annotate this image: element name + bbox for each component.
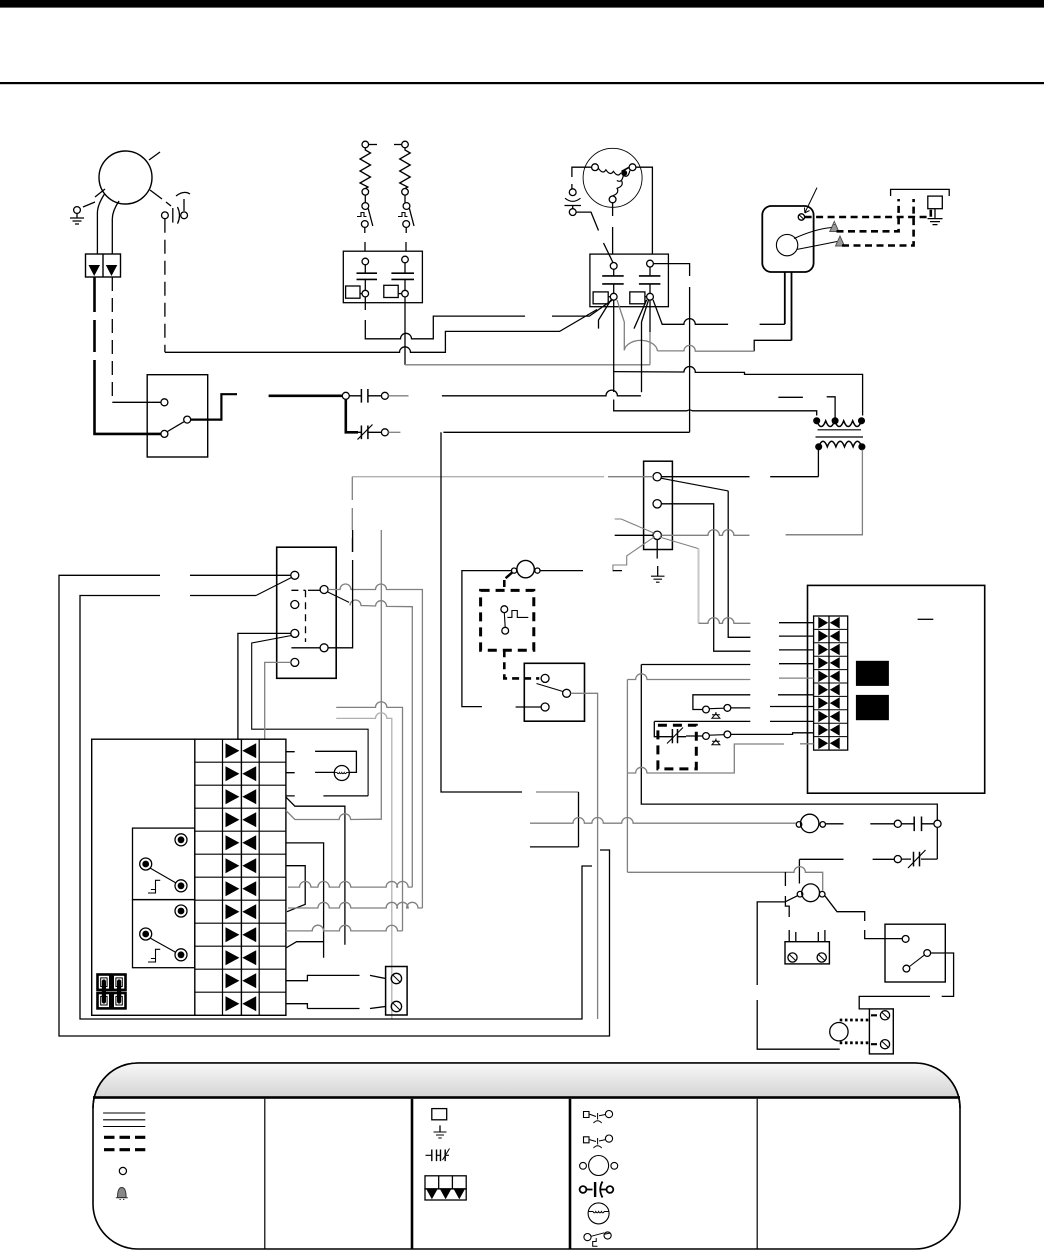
equip ground box: [928, 196, 943, 209]
row2 wire: [286, 771, 334, 773]
aux limit relay box 1: [133, 828, 195, 900]
gray run 2: [350, 600, 412, 887]
wire limit3 left: [516, 706, 542, 708]
col1: bell symbol: [118, 1188, 127, 1198]
strip left column line: [194, 739, 196, 1015]
blade D: [252, 636, 368, 796]
field wire neutral (dashed): [842, 199, 914, 246]
junction box: [762, 206, 813, 272]
limit terminal 3: [541, 703, 549, 711]
wire: terminal2 to vent wire: [653, 300, 728, 325]
winding bottom: [609, 196, 616, 203]
board label line: [918, 618, 934, 620]
relay block 2: [856, 695, 889, 720]
wire NO to bundle: [442, 390, 641, 396]
row7 wire gray: [288, 881, 412, 887]
vent motor circle: [802, 884, 820, 902]
wire B gray out: [328, 584, 422, 908]
wire into D: [238, 633, 291, 740]
gray stub: [388, 395, 408, 397]
draft switch step: [507, 611, 528, 618]
relay SSR box: [147, 375, 208, 457]
terminal F: [291, 658, 299, 666]
TB3 gray diagonals: [615, 519, 699, 549]
wire into A: [190, 574, 291, 576]
draft switch terminal: [501, 606, 508, 613]
terminal C: [291, 601, 299, 609]
draft blade: [503, 613, 506, 628]
speed tap dot: [621, 170, 627, 176]
ground: [74, 207, 81, 214]
wire N into relay: [112, 401, 161, 403]
column dividers: [264, 1099, 266, 1249]
terminal: [402, 189, 409, 196]
grommet circle: [776, 234, 797, 255]
wire: run cap to blower (gray): [165, 310, 597, 353]
terminal block TB: [644, 461, 673, 549]
legend header band: [93, 1063, 960, 1108]
left lead loop: [757, 896, 840, 1049]
relay terminal 3: [161, 430, 168, 437]
capacitor box CAP: [590, 254, 669, 307]
terminal B: [320, 586, 328, 594]
resistor HTR1: [360, 148, 371, 189]
pressure switch box (dashed): [658, 725, 696, 769]
wire y792 continue: [536, 791, 579, 793]
row5 wire: [286, 843, 324, 958]
NO contact HUM: [349, 395, 381, 397]
TB terminal 2: [653, 500, 661, 508]
wire row5 gray into board: [627, 674, 813, 680]
jbox leads down: [784, 272, 786, 324]
blower run capacitor: [569, 189, 576, 196]
vent motor feed right gray: [627, 867, 822, 891]
dashed coil link: [291, 590, 305, 642]
inducer motor IDM: [99, 151, 152, 204]
terminal E: [320, 644, 328, 652]
pressure contact: [672, 729, 677, 743]
pointer arrow: [805, 188, 818, 213]
dashed drop below: [504, 650, 539, 678]
TB3 cross wire black: [615, 534, 653, 536]
rollout 1 wire loop: [693, 695, 814, 710]
screw terminal block TBL: [386, 967, 408, 1016]
blower motor BLWM: [583, 148, 642, 207]
blade B: [327, 592, 349, 603]
strip divider columns: [223, 739, 260, 1015]
col3: plug square: [432, 1109, 447, 1120]
TB2 wire: [661, 504, 813, 651]
wire: cap box1 to blower box (hot): [365, 297, 612, 339]
terminals: [175, 905, 187, 917]
long gray vertical: [380, 530, 382, 819]
motor leads to plug: [97, 194, 104, 254]
row8 wire gray: [288, 902, 422, 908]
relay out wire: [191, 394, 237, 419]
wire left winding to cap: [572, 167, 592, 189]
header rule: [0, 82, 1044, 84]
valve blade: [506, 572, 513, 578]
row12 wire to screw block: [286, 1004, 386, 1009]
wire neutral down (dashed): [111, 277, 113, 402]
relay blade: [168, 422, 184, 432]
wire arch gray: [624, 340, 657, 351]
row4 wire black jog: [286, 797, 345, 945]
bundle fan from cap terminal 1: [599, 300, 612, 329]
wire right winding down: [636, 167, 652, 254]
legend box: [93, 1063, 960, 1249]
fan from cap terminal 2: [634, 300, 650, 332]
row3 wire: [286, 795, 368, 797]
col1: terminal circle: [119, 1167, 126, 1174]
igniter symbol: [588, 1203, 609, 1224]
motor right lead: [826, 823, 895, 825]
blade A: [256, 578, 292, 596]
col3: ground: [439, 1125, 441, 1132]
coil square: [346, 286, 360, 298]
field ground wire (dashed): [805, 209, 931, 217]
transformer T secondary: [816, 441, 865, 449]
terminal: [610, 263, 617, 270]
terminal: [362, 189, 369, 196]
wire cap to switch: [576, 212, 598, 230]
sequencer box SEQ: [343, 251, 422, 303]
wire into F gray: [265, 662, 291, 740]
humidifier motor: [801, 814, 819, 832]
long vertical black left: [441, 432, 522, 792]
winding coils: [598, 168, 621, 175]
24v wire to terminal: [661, 476, 818, 478]
secondary right wire: [786, 450, 863, 535]
vent motor feed left: [798, 859, 800, 883]
igniter dotted leads: [840, 1019, 871, 1022]
junction block outer box: [92, 739, 286, 1015]
TB terminal 1: [653, 473, 661, 481]
field splice arrow 2: [836, 236, 845, 246]
coil square 2: [630, 292, 645, 304]
gray drop at x352: [351, 477, 353, 552]
heater HTR2 terminal: [402, 141, 409, 148]
NC contact: [799, 858, 894, 860]
HSI indicator circle: [334, 766, 349, 781]
band bottom rule: [93, 1096, 960, 1099]
contact terminal 2: [402, 256, 409, 263]
field wire hot (dashed): [837, 199, 899, 231]
wire bottom winding down: [612, 203, 614, 254]
wire: gray run to bundle: [405, 364, 650, 366]
gray wire bottom loop: [627, 744, 813, 773]
stub: [369, 144, 377, 146]
run capacitor lead: [176, 192, 190, 196]
drop to NC row: [530, 792, 579, 847]
header bar: [0, 0, 1044, 8]
wire L1 hot down (thick): [93, 277, 96, 430]
limit switch LS2: [403, 203, 410, 210]
row4 wire gray: [286, 811, 381, 820]
leads from grommet: [794, 228, 832, 239]
wire NC stub gray: [388, 431, 400, 433]
igniter terminal block: [869, 1009, 893, 1054]
switch step symbol: [584, 1234, 591, 1241]
row10 wire: [286, 942, 324, 948]
col3: capacitor symbols: [426, 1154, 450, 1156]
gas valve GV: [517, 560, 534, 577]
wire y477 to TB gray light: [352, 476, 604, 478]
wire L1 into relay: [95, 430, 161, 434]
wire bundle vertical: [614, 300, 817, 415]
coil square: [593, 292, 608, 304]
strip triangles: [226, 743, 257, 1011]
wire: jbox lead2 to y340: [754, 340, 791, 351]
gray runs to lower verticals: [336, 702, 402, 931]
relay HUM/EAC box: [277, 547, 337, 678]
spark transformer block: [785, 942, 829, 964]
blade: [150, 868, 176, 883]
pressure switch solid feed: [654, 720, 813, 722]
wire limit2 gray out: [571, 693, 598, 1019]
TB1 diagonal: [661, 478, 728, 491]
terminal 2: [647, 260, 654, 267]
TB3 ground drop: [656, 540, 658, 559]
transformer T primary: [814, 418, 864, 437]
wire segment right of bump: [760, 323, 785, 325]
wire valve right: [540, 570, 622, 572]
wire row4 into board: [641, 663, 813, 666]
block leads: [785, 872, 789, 942]
terminals: [175, 834, 187, 846]
transformer tap wire: [827, 397, 835, 418]
TB terminal 3: [653, 531, 661, 539]
gray feed into TB1: [608, 476, 653, 478]
relay terminal 1: [161, 399, 168, 406]
limit terminal 1: [541, 674, 549, 682]
strip row lines: [814, 629, 848, 736]
ground symbol: [934, 209, 936, 219]
row9 wire gray: [286, 925, 403, 931]
vent vertical with bumps: [653, 264, 689, 433]
row1 wire to igniter loop: [286, 751, 357, 772]
NC contact EAC: [358, 431, 381, 433]
wire rollout2 out: [731, 733, 814, 735]
control board box: [808, 585, 985, 793]
draft safeguard box (dashed): [481, 590, 534, 650]
winding right: [629, 164, 636, 171]
switch symbol 2: [584, 1137, 590, 1143]
heater HTR1 terminal: [362, 141, 369, 148]
wire: y351 run (gray): [657, 345, 754, 351]
igniter circle: [830, 1022, 848, 1040]
motor symbol: [589, 1156, 609, 1176]
col1: dashed line symbol: [104, 1137, 145, 1149]
connector triangles: [818, 617, 839, 749]
secondary left wire: [817, 450, 819, 477]
step: [148, 949, 160, 962]
bracket: [891, 189, 950, 196]
wire NC to vent vertical: [443, 431, 689, 433]
wire valve left loop: [462, 571, 512, 707]
node circle: [342, 392, 349, 399]
row6 wire: [286, 866, 305, 912]
limit switch box: [524, 663, 584, 721]
wire: terminal2 drop to relay wire: [641, 322, 643, 392]
sail switch box: [885, 924, 945, 982]
plug PL13: [86, 254, 121, 277]
blade: [150, 938, 176, 953]
right lead: [825, 896, 902, 939]
draft terminal 2: [502, 627, 509, 634]
col1: solid line symbol: [103, 1113, 145, 1127]
resistor HTR2: [400, 148, 411, 189]
TB3 gray run right: [661, 530, 862, 536]
main hot wire thick: [269, 394, 343, 397]
stub: [394, 144, 402, 146]
quad plug connector: [98, 975, 126, 1009]
NC branch down: [346, 399, 358, 432]
limit terminal 2: [563, 689, 571, 697]
motor gray lead: [530, 817, 796, 823]
contact plates: [357, 273, 378, 279]
motor lead stub top-right: [149, 152, 160, 160]
row11 wire to screw block: [286, 975, 386, 980]
rollout switch 1: [703, 706, 710, 713]
wire rollout1 out: [731, 707, 814, 708]
dashed drop to draft box: [503, 580, 506, 590]
vertical into E: [328, 530, 353, 648]
coil square 2: [384, 285, 398, 297]
outer cabinet line: [59, 575, 610, 1036]
relay block 1: [856, 661, 889, 686]
wire: bundle to transformer primary right: [614, 366, 863, 415]
bundle gray drop: [617, 300, 624, 350]
ground lead: [83, 202, 95, 207]
motor lead stub left: [95, 189, 105, 197]
limit switch symbol: [584, 1112, 590, 1118]
terminal D: [291, 629, 299, 637]
board edge strip: [814, 616, 848, 750]
strip row lines: [195, 762, 286, 992]
col3: field splice cells: [425, 1176, 466, 1189]
terminal A: [291, 571, 299, 579]
step: [148, 880, 160, 893]
run capacitor: [162, 212, 169, 219]
motor lead stub right: [150, 190, 171, 206]
wire into blade A: [190, 595, 256, 597]
aux limit relay box 2: [133, 900, 195, 968]
limit switch LS1: [362, 203, 369, 210]
winding left: [592, 164, 599, 171]
sail out wire J: [859, 953, 953, 1009]
field splice arrow 1: [830, 222, 839, 232]
rollout switch 2: [686, 735, 703, 737]
ground screw: [798, 214, 804, 220]
capacitor symbol: [580, 1186, 587, 1193]
inner cabinet line: [80, 596, 592, 1020]
NO contact: [894, 820, 901, 827]
limit blade: [537, 684, 564, 692]
label line: [778, 396, 803, 398]
ground TB: [657, 566, 659, 576]
relay terminal 2: [184, 416, 191, 423]
wire from cap down (dashed): [164, 219, 166, 353]
wire: cap box2 down: [404, 297, 406, 365]
contact terminal: [362, 258, 369, 265]
